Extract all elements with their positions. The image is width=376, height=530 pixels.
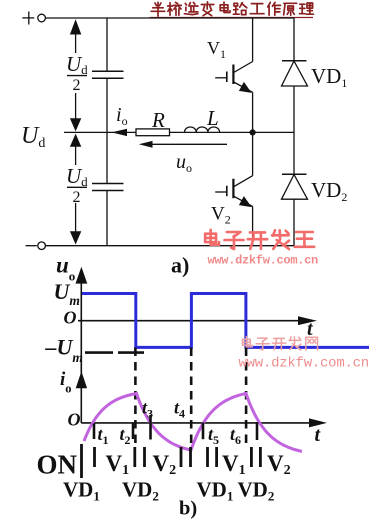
- svg-text:2: 2: [73, 189, 81, 206]
- svg-text:L: L: [206, 106, 219, 130]
- svg-text:R: R: [151, 108, 165, 132]
- svg-text:a): a): [171, 253, 189, 278]
- svg-text:2: 2: [73, 77, 81, 94]
- svg-text:O: O: [64, 308, 77, 328]
- svg-text:O: O: [68, 410, 81, 430]
- svg-text:www.dzkfw.com.cn: www.dzkfw.com.cn: [239, 356, 369, 372]
- svg-text:ON: ON: [37, 450, 78, 480]
- svg-text:b): b): [179, 498, 197, 520]
- svg-text:www.dzkfw.com.cn: www.dzkfw.com.cn: [208, 254, 319, 268]
